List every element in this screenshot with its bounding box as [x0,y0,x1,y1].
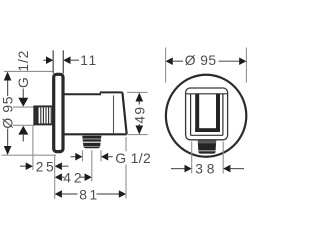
svg-text:49: 49 [132,106,147,124]
dimension 49 [127,92,148,134]
svg-text:G 1/2: G 1/2 [115,150,151,166]
svg-text:G 1/2: G 1/2 [16,50,31,88]
svg-text:Ø 95: Ø 95 [0,96,15,129]
svg-text:42: 42 [63,170,84,185]
dimension 25 [20,126,69,175]
dimension 42 [55,150,92,185]
svg-text:25: 25 [36,159,56,174]
dimension 81 [55,137,126,202]
outlet thread side view [82,136,101,148]
dimension D95 left [0,72,15,156]
ext line pipe bottom [13,124,35,126]
svg-text:11: 11 [80,53,98,68]
callout G1/2 inlet [16,50,31,142]
body cone side view [64,92,127,134]
dimension 11 [43,50,98,73]
ext line plate top [4,70,54,72]
outlet nut front view [198,141,217,154]
svg-text:Ø 95: Ø 95 [185,53,217,68]
holder front view [186,88,228,140]
svg-text:81: 81 [79,187,100,202]
svg-text:3 8: 3 8 [195,162,215,177]
threaded inlet pipe [34,106,53,124]
ext line pipe top [13,106,35,108]
dimension 38 [171,142,244,177]
dimension D95 front view [166,48,247,83]
wall plate [54,74,63,151]
callout G1/2 outlet [71,150,152,166]
escutcheon circle front view [166,75,246,157]
cone face line [113,95,115,133]
ext line plate bottom [2,154,57,156]
